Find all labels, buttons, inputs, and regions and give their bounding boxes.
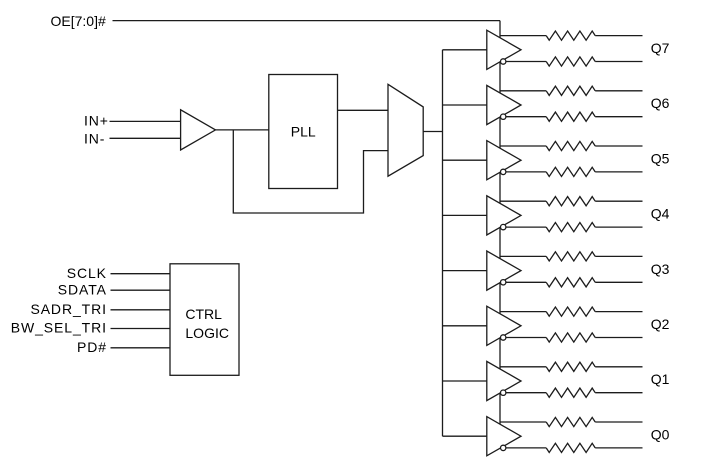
resistor Q2 complement <box>546 333 595 342</box>
wire Q7 complement output <box>506 61 546 63</box>
svg-text:BW_SEL_TRI: BW_SEL_TRI <box>11 320 107 336</box>
wire Q2 complement output <box>506 337 546 339</box>
OE bubble Q1 <box>501 390 506 395</box>
wire Q3 true to pin <box>595 255 642 257</box>
wire mux output <box>423 131 442 133</box>
output buffer Q0 <box>487 417 521 456</box>
OE bubble Q0 <box>501 445 506 450</box>
wire Q4 complement to pin <box>595 226 642 228</box>
wire bus to output buffer Q4 <box>443 214 487 216</box>
wire Q3 true output <box>500 255 546 257</box>
wire Q6 complement output <box>506 116 546 118</box>
resistor Q0 complement <box>546 443 595 452</box>
resistor Q4 complement <box>546 223 595 232</box>
wire SDATA <box>111 289 171 291</box>
wire Q3 complement to pin <box>595 281 642 283</box>
wire input buffer output to PLL <box>216 129 269 131</box>
wire Q2 complement to pin <box>595 337 642 339</box>
svg-text:Q5: Q5 <box>651 150 670 166</box>
wire Q6 complement to pin <box>595 116 642 118</box>
wire Q1 complement to pin <box>595 392 642 394</box>
wire Q7 true output <box>500 35 546 37</box>
resistor Q6 true <box>546 86 595 95</box>
resistor Q6 complement <box>546 112 595 121</box>
wire Q1 true output <box>500 366 546 368</box>
wire Q4 true to pin <box>595 200 642 202</box>
svg-text:SDATA: SDATA <box>58 281 107 297</box>
OE bubble Q2 <box>501 335 506 340</box>
output buffer Q6 <box>487 85 521 124</box>
wire Q0 true to pin <box>595 421 642 423</box>
wire Q1 true to pin <box>595 366 642 368</box>
wire OE horizontal <box>113 20 501 22</box>
resistor Q7 true <box>546 31 595 40</box>
svg-text:Q0: Q0 <box>651 426 670 442</box>
svg-text:Q1: Q1 <box>651 371 670 387</box>
clock distribution bus <box>442 50 444 436</box>
wire PLL output to mux <box>338 109 389 111</box>
svg-text:Q2: Q2 <box>651 316 670 332</box>
output buffer Q4 <box>487 196 521 235</box>
wire Q7 complement to pin <box>595 61 642 63</box>
wire bus to output buffer Q0 <box>443 435 487 437</box>
wire Q7 true to pin <box>595 35 642 37</box>
svg-text:Q3: Q3 <box>651 261 670 277</box>
wire Q5 true to pin <box>595 145 642 147</box>
wire Q6 true to pin <box>595 90 642 92</box>
resistor Q7 complement <box>546 57 595 66</box>
resistor Q3 complement <box>546 278 595 287</box>
output buffer Q3 <box>487 251 521 290</box>
wire BW_SEL_TRI <box>111 328 171 330</box>
svg-text:IN+: IN+ <box>84 112 109 128</box>
wire bus to output buffer Q5 <box>443 159 487 161</box>
svg-text:PD#: PD# <box>77 339 107 355</box>
wire SCLK <box>111 273 171 275</box>
OE bubble Q5 <box>501 169 506 174</box>
OE bubble Q6 <box>501 114 506 119</box>
resistor Q5 complement <box>546 167 595 176</box>
svg-text:PLL: PLL <box>291 123 316 139</box>
wire Q2 true to pin <box>595 311 642 313</box>
svg-text:IN-: IN- <box>84 130 105 146</box>
wire Q5 true output <box>500 145 546 147</box>
wire bus to output buffer Q6 <box>443 104 487 106</box>
wire bus to output buffer Q1 <box>443 380 487 382</box>
wire SADR_TRI <box>111 309 171 311</box>
wire IN- <box>110 137 181 139</box>
control logic block <box>170 264 239 376</box>
wire bus to output buffer Q3 <box>443 270 487 272</box>
resistor Q4 true <box>546 197 595 206</box>
resistor Q5 true <box>546 141 595 150</box>
svg-text:CTRL: CTRL <box>185 306 222 322</box>
wire PLL bypass path <box>233 130 388 213</box>
svg-text:LOGIC: LOGIC <box>185 325 229 341</box>
input buffer <box>181 110 216 150</box>
svg-text:Q7: Q7 <box>651 40 670 56</box>
wire bus to output buffer Q2 <box>443 325 487 327</box>
OE bubble Q3 <box>501 280 506 285</box>
output buffer Q2 <box>487 306 521 345</box>
resistor Q2 true <box>546 307 595 316</box>
resistor Q0 true <box>546 417 595 426</box>
svg-text:Q6: Q6 <box>651 95 670 111</box>
wire Q5 complement to pin <box>595 171 642 173</box>
wire Q4 true output <box>500 200 546 202</box>
wire IN+ <box>110 120 181 122</box>
svg-text:Q4: Q4 <box>651 206 670 222</box>
output buffer Q5 <box>487 141 521 180</box>
resistor Q3 true <box>546 252 595 261</box>
resistor Q1 true <box>546 362 595 371</box>
output buffer Q7 <box>487 30 521 69</box>
output buffer Q1 <box>487 361 521 400</box>
wire Q2 true output <box>500 311 546 313</box>
wire Q0 complement output <box>506 447 546 449</box>
svg-text:OE[7:0]#: OE[7:0]# <box>51 13 106 29</box>
wire Q4 complement output <box>506 226 546 228</box>
wire Q0 true output <box>500 421 546 423</box>
PLL block <box>269 75 338 189</box>
wire PD# <box>111 347 171 349</box>
svg-text:SCLK: SCLK <box>67 265 107 281</box>
wire Q1 complement output <box>506 392 546 394</box>
wire Q5 complement output <box>506 171 546 173</box>
wire Q6 true output <box>500 90 546 92</box>
mux <box>388 84 423 176</box>
wire Q0 complement to pin <box>595 447 642 449</box>
wire OE vertical bus <box>499 21 501 447</box>
resistor Q1 complement <box>546 388 595 397</box>
svg-text:SADR_TRI: SADR_TRI <box>30 301 106 317</box>
OE bubble Q7 <box>501 59 506 64</box>
OE bubble Q4 <box>501 224 506 229</box>
wire Q3 complement output <box>506 281 546 283</box>
wire bus to output buffer Q7 <box>443 49 487 51</box>
